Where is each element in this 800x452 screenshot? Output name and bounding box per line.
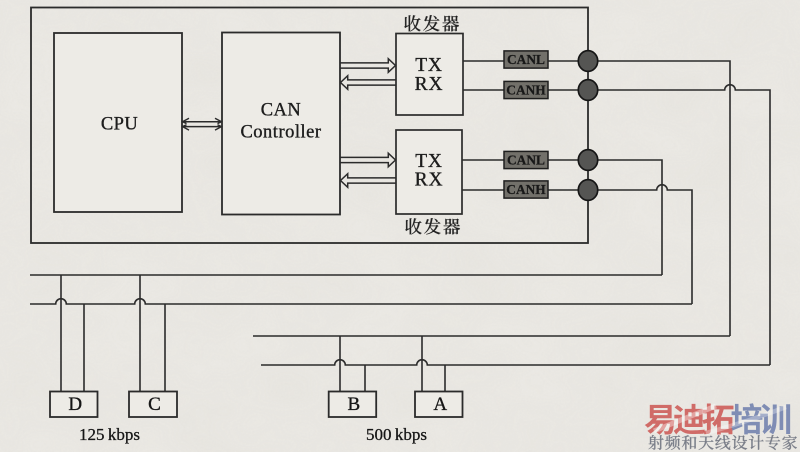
wire drop to node A from CANL	[421, 336, 423, 391]
wire drop to node B from CANH	[364, 365, 366, 391]
500kbps bus CANH line with hops at node B and node A drops	[261, 360, 770, 365]
svg-text:RX: RX	[415, 74, 444, 95]
bus junction node circle 3	[578, 150, 597, 171]
wire drop to node A from CANH	[444, 365, 446, 391]
svg-text:CANH: CANH	[506, 83, 546, 98]
svg-text:A: A	[433, 394, 447, 415]
svg-text:CANL: CANL	[507, 153, 545, 168]
transceiver 1 box TX/RX	[396, 34, 463, 116]
svg-text:D: D	[68, 394, 82, 415]
svg-text:C: C	[148, 394, 161, 415]
125kbps bus CANL line	[30, 274, 662, 276]
wire CANH2: transceiver2 out, hop over CANL2 drop, down	[462, 185, 692, 304]
CPU box	[54, 33, 182, 212]
watermark tagline 射频和天线设计专家	[649, 435, 797, 450]
arrow controller to TX2	[341, 153, 396, 167]
wire drop to node B from CANL	[339, 336, 341, 391]
svg-text:500 kbps: 500 kbps	[366, 425, 427, 444]
125kbps bus CANH line with hops at node D and node C drops	[30, 299, 692, 304]
transceiver 2 label 收发器	[405, 218, 460, 234]
svg-text:RX: RX	[415, 169, 444, 190]
node A box	[415, 392, 463, 418]
transceiver 1 label 收发器	[404, 15, 459, 31]
node D box	[50, 392, 98, 418]
wire drop to node D from CANH	[83, 304, 85, 392]
wire drop to node C from CANH	[164, 304, 166, 392]
svg-text:Controller: Controller	[240, 123, 321, 143]
watermark logo 易迪拓培训	[645, 403, 734, 434]
watermark ghost streaks	[654, 406, 716, 431]
wire CANL1: transceiver1 out to junction node, right then down	[463, 61, 730, 336]
wire drop to node D from CANL	[60, 275, 62, 392]
wire drop to node C from CANL	[139, 275, 141, 392]
arrow RX2 to controller	[341, 174, 396, 188]
node module enclosure box	[31, 8, 588, 244]
CANL tag badge at y 59.5	[504, 51, 548, 68]
arrow controller to TX1	[341, 59, 396, 73]
500kbps bus CANL line	[253, 335, 730, 337]
bus junction node circle 2	[578, 80, 597, 101]
node C box	[129, 392, 177, 418]
bus junction node circle 1	[578, 51, 597, 72]
svg-text:CANH: CANH	[506, 182, 546, 197]
svg-text:CAN: CAN	[261, 101, 302, 121]
CANH tag badge at y 90	[504, 81, 548, 98]
svg-text:125 kbps: 125 kbps	[79, 425, 140, 444]
CANH tag badge at y 189.5	[504, 181, 548, 198]
node B box	[329, 392, 377, 418]
wire CANL2: transceiver2 out to junction node, right then down	[462, 160, 662, 275]
bus arrow CPU-controller line 2	[183, 126, 222, 128]
svg-text:B: B	[348, 394, 361, 415]
CANL tag badge at y 160	[504, 151, 548, 168]
svg-text:TX: TX	[415, 55, 443, 76]
svg-text:CPU: CPU	[101, 114, 138, 134]
arrow RX1 to controller	[341, 76, 396, 90]
bus junction node circle 4	[578, 180, 597, 201]
transceiver 2 box TX/RX	[396, 130, 462, 214]
wire CANH1: transceiver1 out, hop over CANL1 drop, down	[463, 85, 770, 365]
CAN controller box	[222, 33, 340, 215]
svg-text:CANL: CANL	[507, 52, 545, 67]
bus arrow CPU-controller line 1	[183, 121, 222, 123]
